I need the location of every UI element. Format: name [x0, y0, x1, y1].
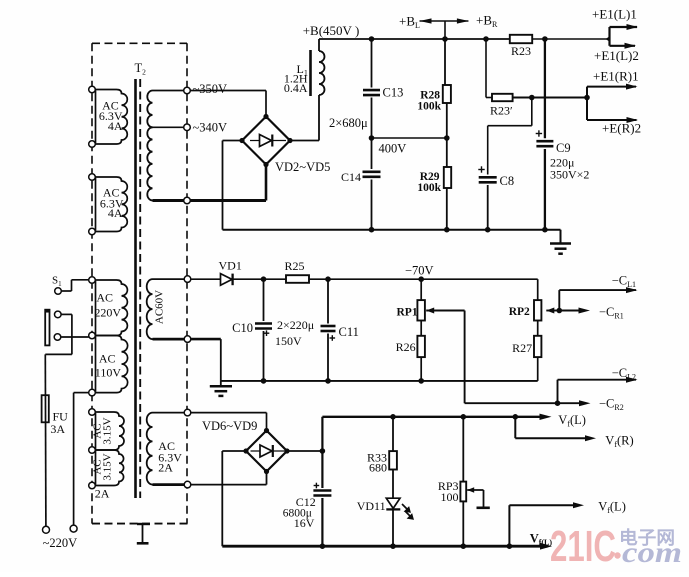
svg-text:4A: 4A: [108, 119, 123, 133]
svg-text:4A: 4A: [108, 206, 123, 220]
svg-text:AC: AC: [96, 291, 113, 305]
svg-text:680: 680: [369, 461, 387, 475]
svg-text:−70V: −70V: [405, 264, 434, 278]
svg-text:+E1(L)1: +E1(L)1: [592, 6, 637, 21]
svg-text:+E1(R)1: +E1(R)1: [593, 69, 639, 84]
svg-text:RP1: RP1: [397, 307, 418, 319]
svg-text:C11: C11: [339, 325, 359, 339]
svg-text:2×220μ: 2×220μ: [277, 318, 314, 332]
svg-text:3A: 3A: [50, 422, 65, 436]
svg-text:VD1: VD1: [219, 259, 242, 273]
svg-text:220V: 220V: [94, 306, 121, 320]
svg-text:C13: C13: [383, 86, 404, 100]
svg-text:R23: R23: [511, 44, 531, 58]
svg-text:+E1(L)2: +E1(L)2: [594, 48, 639, 63]
svg-text:2A: 2A: [158, 461, 173, 475]
svg-text:AC60V: AC60V: [154, 290, 166, 324]
svg-text:2A: 2A: [95, 487, 110, 501]
svg-text:C9: C9: [556, 141, 571, 155]
svg-text:150V: 150V: [275, 334, 302, 348]
svg-text:21IC: 21IC: [550, 522, 616, 571]
svg-text:+E(R)2: +E(R)2: [602, 121, 641, 136]
svg-text:0.4A: 0.4A: [284, 81, 308, 95]
svg-text:~220V: ~220V: [43, 536, 78, 550]
svg-text:VD2~VD5: VD2~VD5: [275, 160, 330, 174]
svg-text:R25: R25: [285, 259, 305, 273]
svg-text:AC: AC: [99, 352, 116, 366]
svg-text:com: com: [622, 536, 682, 569]
svg-text:RP2: RP2: [509, 306, 530, 318]
svg-text:C14: C14: [341, 170, 361, 184]
svg-text:16V: 16V: [294, 516, 315, 530]
svg-text:R28: R28: [420, 89, 440, 101]
svg-text:R23′: R23′: [490, 104, 513, 118]
svg-text:~340V: ~340V: [193, 121, 228, 135]
svg-text:VD11: VD11: [357, 499, 386, 513]
svg-text:3.15V: 3.15V: [102, 453, 114, 480]
svg-text:R27: R27: [512, 341, 532, 355]
svg-text:100k: 100k: [417, 101, 441, 113]
svg-text:+B(450V ): +B(450V ): [303, 23, 360, 38]
svg-text:100: 100: [441, 490, 459, 504]
svg-text:R26: R26: [396, 340, 416, 354]
svg-text:110V: 110V: [95, 366, 122, 380]
svg-text:Vf(L): Vf(L): [558, 413, 586, 429]
svg-text:Vf(L): Vf(L): [598, 500, 626, 516]
svg-text:350V×2: 350V×2: [550, 168, 589, 182]
svg-text:~350V: ~350V: [193, 82, 228, 96]
svg-text:3.15V: 3.15V: [102, 417, 114, 444]
svg-text:400V: 400V: [379, 142, 407, 156]
svg-text:2×680μ: 2×680μ: [329, 116, 368, 130]
svg-text:C10: C10: [232, 321, 253, 335]
svg-text:C8: C8: [500, 174, 515, 188]
svg-text:VD6~VD9: VD6~VD9: [202, 419, 257, 433]
svg-text:100k: 100k: [417, 182, 441, 194]
svg-text:Vf(R): Vf(R): [605, 434, 633, 450]
